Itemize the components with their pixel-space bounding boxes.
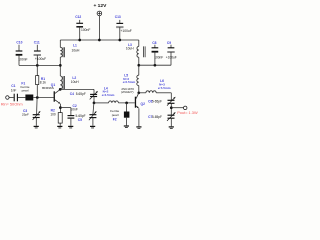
svg-text:L1: L1 <box>73 44 77 48</box>
svg-text:C8: C8 <box>152 41 156 45</box>
svg-text:Pout= 1.3W: Pout= 1.3W <box>177 110 198 115</box>
svg-text:5-65pF: 5-65pF <box>152 100 162 104</box>
svg-text:ø 6.5mm: ø 6.5mm <box>102 93 115 97</box>
svg-text:C12: C12 <box>75 15 81 19</box>
svg-text:5-65pF: 5-65pF <box>76 92 86 96</box>
svg-text:10uH: 10uH <box>71 80 80 84</box>
svg-text:F2: F2 <box>113 117 117 121</box>
svg-text:C11: C11 <box>34 41 40 45</box>
svg-text:C4: C4 <box>70 92 74 96</box>
svg-text:C1: C1 <box>11 84 15 88</box>
svg-text:ø 6.5mm: ø 6.5mm <box>123 80 136 84</box>
svg-text:C5: C5 <box>78 118 82 122</box>
svg-text:10uH: 10uH <box>126 46 134 50</box>
svg-text:C10: C10 <box>16 41 22 45</box>
svg-text:100: 100 <box>50 112 56 116</box>
svg-text:C9: C9 <box>167 41 171 45</box>
svg-text:+100uF: +100uF <box>121 29 132 33</box>
svg-text:Q2: Q2 <box>141 102 146 106</box>
svg-text:10uH: 10uH <box>72 49 81 53</box>
svg-text:Rin= 50Ohm: Rin= 50Ohm <box>1 102 23 107</box>
svg-text:100nF: 100nF <box>154 55 163 59</box>
svg-text:100nF: 100nF <box>18 57 27 61</box>
svg-text:5-65pF: 5-65pF <box>152 115 162 119</box>
svg-text:1nF: 1nF <box>11 89 17 93</box>
svg-text:BFR96S: BFR96S <box>42 86 54 90</box>
svg-text:100nF: 100nF <box>81 28 90 32</box>
svg-text:+100uF: +100uF <box>166 55 177 59</box>
svg-text:ø 5.5mm: ø 5.5mm <box>158 86 171 90</box>
svg-text:(2N4427): (2N4427) <box>121 90 134 94</box>
svg-text:pearl: pearl <box>112 113 119 117</box>
svg-text:+100uF: +100uF <box>35 57 46 61</box>
svg-text:8.1k: 8.1k <box>40 81 46 85</box>
svg-text:10nF: 10nF <box>71 107 78 111</box>
svg-text:C13: C13 <box>115 15 121 19</box>
svg-text:25pF: 25pF <box>22 112 29 116</box>
svg-text:+ 12V: + 12V <box>93 3 107 9</box>
svg-text:pearl: pearl <box>22 89 29 93</box>
